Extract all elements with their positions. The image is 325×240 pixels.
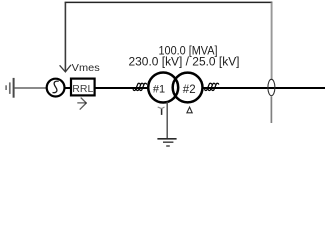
svg-text:#1: #1 [153, 84, 165, 96]
wire transformer down to ground [166, 102, 168, 139]
svg-text:Vmes: Vmes [72, 63, 100, 74]
wire Vmes loop right vertical [271, 2, 273, 79]
wire stub below ellipse [270, 96, 272, 123]
Vmes arrowhead [60, 65, 71, 72]
coil winding W1 [133, 83, 140, 90]
arrow under RRL [77, 98, 86, 110]
wire RRL to transformer [95, 87, 148, 89]
source squiggle [53, 81, 59, 93]
ground (bottom) middle bar [163, 141, 173, 143]
svg-text:#2: #2 [183, 84, 196, 96]
transformer circle #1 [148, 73, 178, 103]
ground (left) middle bar [9, 82, 11, 94]
svg-text:100.0 [MVA]: 100.0 [MVA] [159, 45, 218, 57]
wire ground to source [15, 87, 47, 89]
wire Vmes loop top horizontal [65, 1, 273, 3]
RRL box [71, 79, 95, 96]
ground (left) tall bar [13, 78, 15, 98]
ground (bottom) short bar [166, 145, 170, 147]
wire Vmes loop left vertical [64, 2, 66, 71]
transformer circle #2 [173, 73, 203, 103]
ground (left) short bar [5, 85, 7, 90]
delta symbol [187, 107, 192, 113]
wire source to RRL [65, 87, 72, 89]
coil winding W2 [205, 83, 212, 90]
svg-text:RRL: RRL [72, 83, 93, 95]
source circle [47, 79, 65, 97]
svg-text:230.0 [kV] / 25.0 [kV]: 230.0 [kV] / 25.0 [kV] [129, 57, 240, 69]
ellipse node [268, 79, 275, 95]
ground (bottom) top bar [157, 138, 176, 140]
Y symbol [161, 108, 163, 115]
wire bus transformer to right edge [203, 87, 325, 89]
